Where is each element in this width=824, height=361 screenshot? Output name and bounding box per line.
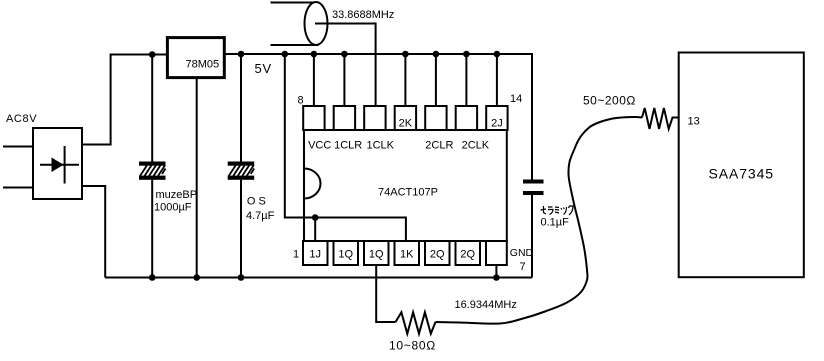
svg-text:8: 8 [298, 95, 304, 107]
svg-text:10~80Ω: 10~80Ω [389, 339, 436, 353]
svg-text:50~200Ω: 50~200Ω [583, 94, 636, 108]
svg-text:2K: 2K [399, 118, 413, 130]
junction C1 bottom [149, 274, 156, 281]
wire 5V to 2CLR pin [435, 54, 437, 106]
wire crystal bottom lead [271, 44, 319, 46]
pin box bottom 2Q [425, 241, 450, 265]
svg-text:1K: 1K [400, 249, 414, 261]
pin box bottom 1K [395, 241, 420, 265]
wire capacitor C2 top lead [240, 54, 242, 162]
junction 2CLK [463, 51, 470, 58]
svg-text:4.7µF: 4.7µF [246, 210, 275, 222]
pin box bottom GND [486, 241, 507, 265]
wire 5V to VCC pin [313, 54, 315, 106]
junction 1J preset [312, 214, 319, 221]
svg-text:14: 14 [510, 93, 522, 105]
svg-text:muzeBP: muzeBP [156, 189, 198, 201]
svg-text:1: 1 [293, 249, 299, 261]
junction 1CLR [341, 51, 348, 58]
junction 2CLR [433, 51, 440, 58]
junction GND on rail [493, 274, 500, 281]
svg-text:AC8V: AC8V [6, 113, 37, 125]
svg-text:1CLK: 1CLK [367, 140, 395, 152]
wire 5V to 2J pin [496, 54, 498, 106]
junction C2 bottom [238, 274, 245, 281]
wire AC input top [3, 146, 33, 148]
wire capacitor C1 bottom lead [151, 180, 153, 278]
regulator U2 78M05 [167, 38, 224, 78]
pin box top VCC [303, 106, 324, 130]
svg-text:2J: 2J [491, 118, 503, 130]
junction C1 top [149, 51, 156, 58]
svg-text:2CLK: 2CLK [462, 140, 490, 152]
wire crystal output to pin 1CLK [315, 24, 376, 107]
bridge rectifier D1 box [33, 128, 82, 199]
svg-text:2CLR: 2CLR [425, 140, 453, 152]
IC U1 index notch [304, 169, 321, 199]
svg-text:1CLR: 1CLR [334, 140, 362, 152]
IC U1 74ACT107P body [304, 130, 507, 241]
wire bridge output positive to regulator [82, 55, 168, 145]
svg-text:74ACT107P: 74ACT107P [378, 187, 438, 199]
svg-text:7: 7 [520, 261, 526, 273]
svg-text:2Q: 2Q [460, 249, 475, 261]
pin box top 1CLK [364, 106, 385, 130]
bridge rectifier D1 diode symbol [40, 146, 79, 184]
svg-text:33.8688MHz: 33.8688MHz [332, 9, 394, 21]
wire 5V to 2K pin [404, 54, 406, 106]
wire C3 bottom to ground rail [531, 195, 533, 278]
crystal X1 body [305, 2, 328, 45]
junction 2J [494, 51, 501, 58]
junction C2 top [238, 51, 245, 58]
wire capacitor C1 top lead [151, 55, 153, 162]
svg-text:VCC: VCC [308, 140, 331, 152]
resistor R2 10-80ohm [396, 312, 436, 333]
wire GND pin to rail [495, 265, 497, 278]
pin box top 2K [395, 106, 416, 130]
wire 5V rail [225, 54, 532, 180]
wire crystal top lead [271, 2, 315, 4]
wire 5V to 2CLK pin [465, 54, 467, 106]
svg-text:1Q: 1Q [338, 249, 353, 261]
pin box bottom 1J [303, 241, 328, 265]
junction 78M05 gnd on rail [193, 274, 200, 281]
pin box top 2J [486, 106, 507, 130]
capacitor C1 1000uF electrolytic symbol [139, 162, 166, 180]
IC U3 SAA7345 body [679, 53, 804, 278]
pin box bottom 1Qbar [364, 241, 389, 265]
pin box top 1CLR [334, 106, 355, 130]
svg-text:SAA7345: SAA7345 [709, 166, 774, 182]
capacitor C3 label ceramic katakana [541, 206, 574, 215]
junction 5V at preset branch [282, 51, 289, 58]
svg-text:0.1µF: 0.1µF [541, 217, 570, 229]
wire 78M05 ground pin [196, 78, 198, 277]
resistor R1 50-200ohm [642, 108, 679, 129]
wire 5V to 1CLR pin [343, 54, 345, 106]
wire ground rail [105, 277, 532, 279]
pin box bottom 1Q [334, 241, 359, 265]
svg-text:GND: GND [510, 247, 534, 259]
svg-text:1J: 1J [309, 249, 321, 261]
wire curved from R2 to R1 [436, 117, 643, 324]
wire 5V down to 1J and 1K preset pins [285, 54, 406, 241]
capacitor C2 4.7uF electrolytic symbol [228, 162, 255, 180]
svg-text:2Q: 2Q [430, 249, 445, 261]
pin box top 2CLK [456, 106, 477, 130]
wire 1Q output down [376, 265, 395, 322]
svg-text:1000µF: 1000µF [154, 202, 192, 214]
wire AC input bottom [3, 187, 33, 189]
svg-text:5V: 5V [255, 61, 273, 76]
junction 2K [402, 51, 409, 58]
wire bridge output negative to ground rail [82, 186, 105, 278]
svg-text:O S: O S [247, 196, 266, 208]
svg-text:16.9344MHz: 16.9344MHz [455, 299, 517, 311]
svg-text:13: 13 [688, 116, 700, 128]
junction VCC [311, 51, 318, 58]
svg-text:1Q: 1Q [369, 249, 384, 261]
wire capacitor C2 bottom lead [240, 180, 242, 278]
pin box top 2CLR [425, 106, 446, 130]
svg-text:78M05: 78M05 [185, 59, 219, 71]
capacitor C3 0.1uF ceramic [523, 180, 544, 196]
pin box bottom 2Qbar [456, 241, 481, 265]
